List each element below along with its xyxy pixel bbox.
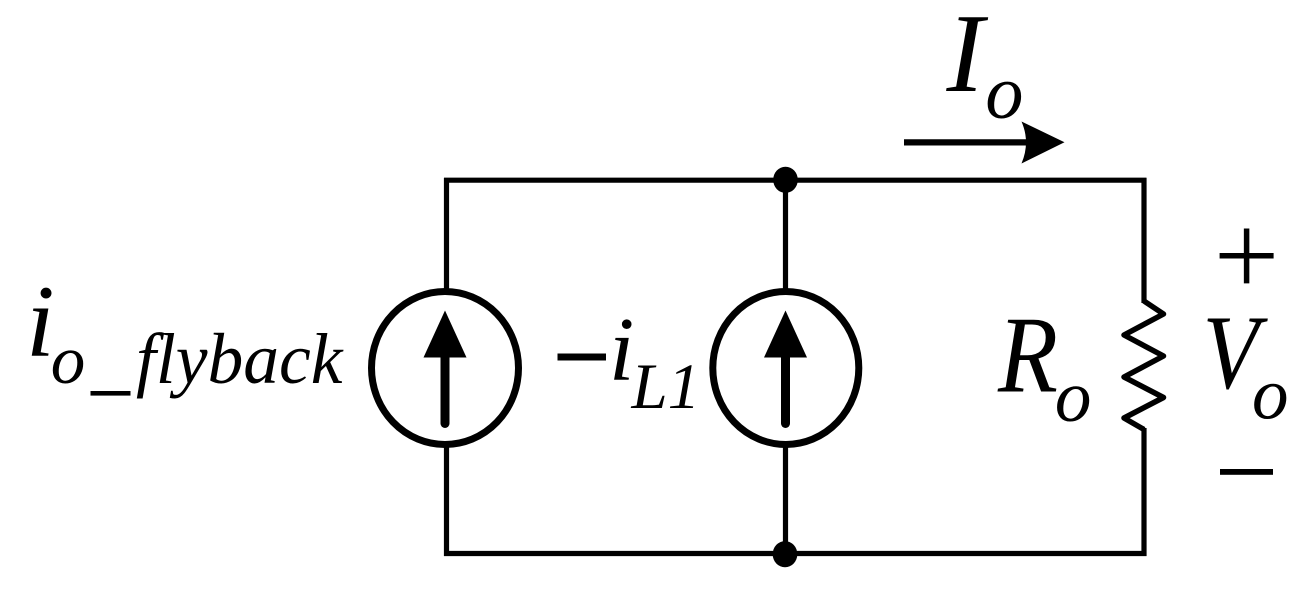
node A junction dot (top) [773,167,798,193]
svg-text:L1: L1 [631,351,701,423]
minus sign (Vo polarity -) [1220,469,1273,475]
current source I1 arrow [424,311,467,424]
wire: top bus (node A rail) [444,178,1147,183]
wire: right branch, top segment [1141,178,1146,303]
label i_o_flyback (left source current) [26,265,344,399]
wire: left branch, top segment [444,178,449,295]
svg-text:o: o [1252,354,1289,435]
svg-text:i: i [609,299,634,400]
current source I2 circle (-i_L1 source) [713,292,859,445]
svg-text:o: o [985,51,1023,135]
wire: middle branch, top segment [783,178,788,295]
current source I2 arrow [764,311,807,424]
svg-text:flyback: flyback [136,320,344,399]
node B junction dot (bottom) [773,541,798,567]
svg-text:o: o [51,322,85,398]
arrow for Io current direction [904,122,1065,164]
label -i_L1 (middle source current) [558,299,701,423]
svg-text:o: o [1055,356,1092,437]
plus sign (Vo polarity +) [1220,229,1274,284]
label Ro (load resistor) [997,295,1091,438]
svg-text:R: R [997,295,1058,416]
wire: right branch, bottom segment [1141,428,1146,556]
svg-text:I: I [946,0,989,116]
resistor Ro zigzag [1124,301,1164,430]
wire: left branch, bottom segment [444,442,449,556]
label Vo (output voltage) [1203,294,1289,435]
wire: bottom bus (node B rail) [444,551,1147,556]
label Io (output current) [946,0,1024,135]
current source I1 circle (i_o_flyback source) [372,292,519,445]
wire: middle branch, bottom segment [783,442,788,556]
